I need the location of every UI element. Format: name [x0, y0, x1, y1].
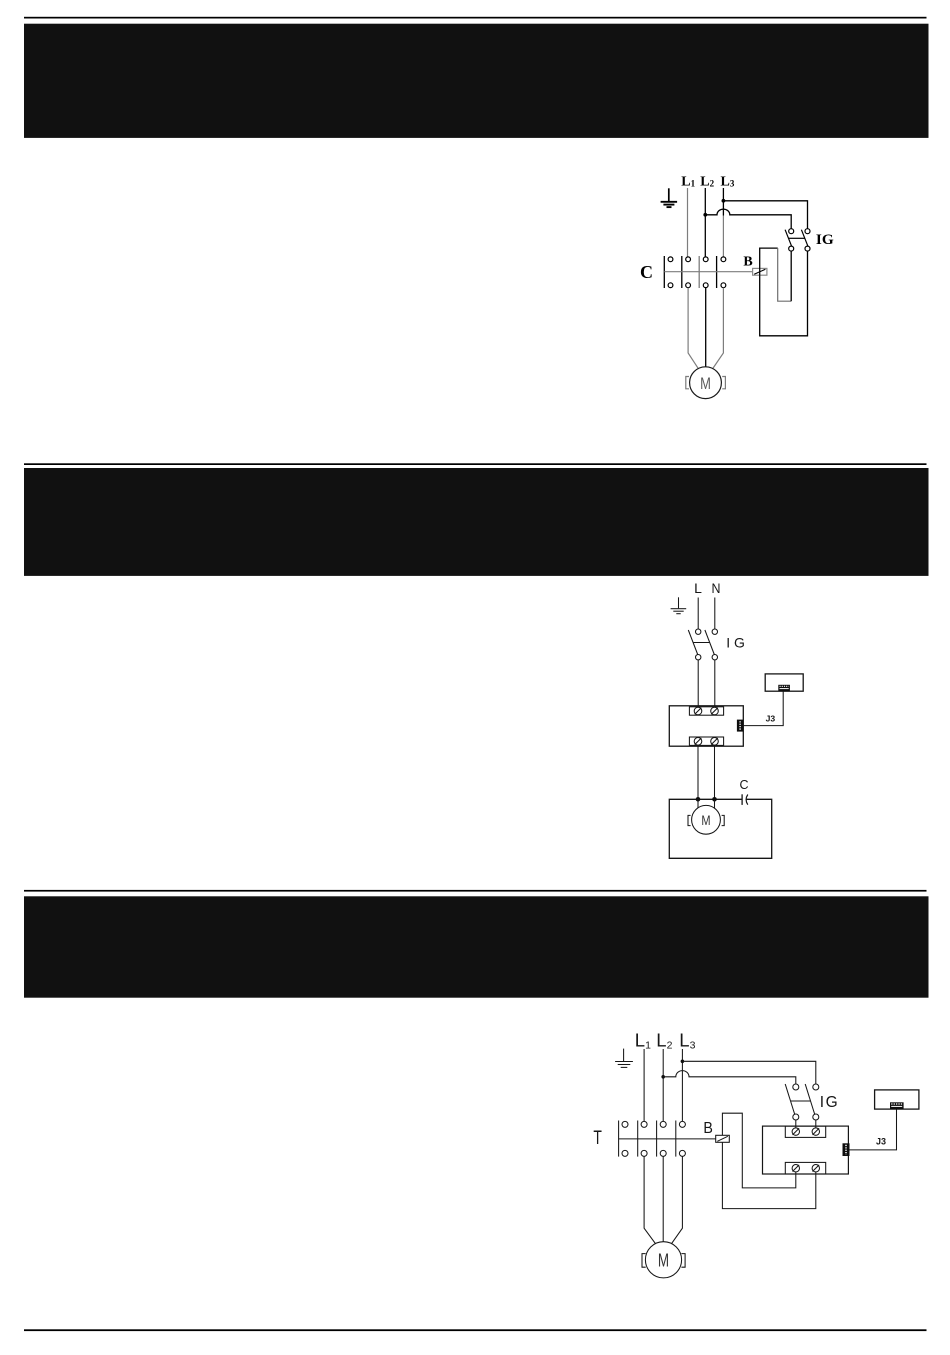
switch IG blades: [785, 1084, 815, 1115]
svg-text:B: B: [743, 254, 752, 269]
svg-text:IG: IG: [726, 635, 748, 651]
wire relay bottom to box bottom-right terminal: [722, 1142, 815, 1208]
contactor T top contacts: [622, 1121, 685, 1127]
wire dot to motor right: [714, 799, 716, 808]
wire N: [714, 598, 716, 630]
wire dot to motor left: [697, 799, 699, 808]
motor M circle: [690, 367, 722, 399]
display module box: [875, 1090, 919, 1109]
ground: [661, 188, 678, 207]
contactor T bottom contacts: [622, 1150, 685, 1156]
motor wire phase 2: [705, 288, 707, 367]
terminal strip bottom: [689, 737, 723, 745]
svg-text:L2: L2: [700, 174, 714, 189]
wire loop mid: [778, 248, 792, 301]
connector J3 on box edge: [843, 1143, 850, 1156]
display module connector: [890, 1102, 904, 1109]
relay B box: [753, 268, 767, 275]
wire L3 to IG right pole: [682, 1061, 815, 1084]
wire L2: [704, 188, 706, 257]
svg-text:J3: J3: [766, 713, 776, 723]
terminal screw top right: [711, 707, 719, 715]
junction dot L2: [703, 213, 707, 217]
wire L2 to IG left pole with hop: [663, 1071, 796, 1084]
capacitor C left plate: [741, 794, 743, 805]
switch IG contacts: [793, 1084, 819, 1120]
junction dot L3: [722, 199, 726, 203]
wire box to motor N: [714, 745, 716, 799]
motor left terminal tab: [642, 1254, 646, 1268]
svg-text:M: M: [658, 1249, 669, 1270]
wire L3: [722, 188, 724, 216]
svg-text:T: T: [593, 1128, 602, 1149]
wire relay bottom loop: [760, 251, 808, 336]
contactor linkage to relay: [619, 1138, 716, 1140]
wire L3 to IG right pole: [723, 201, 807, 229]
ground: [615, 1049, 633, 1068]
svg-text:B: B: [703, 1120, 713, 1137]
motor right terminal tab: [681, 1254, 685, 1268]
redaction band 3: [24, 896, 929, 997]
motor right terminal tab: [722, 815, 725, 825]
display module box: [765, 674, 803, 691]
svg-text:L1: L1: [681, 174, 695, 189]
svg-text:IG: IG: [820, 1094, 839, 1111]
display module connector: [778, 685, 790, 691]
terminal screw bottom right: [711, 738, 719, 746]
relay B box: [716, 1135, 730, 1142]
wire L3 lower: [722, 216, 724, 257]
contactor C top contacts: [668, 257, 726, 262]
wire L1: [687, 188, 689, 257]
wire relay top loop: [760, 248, 778, 275]
wire IG to box N: [714, 660, 716, 707]
svg-text:N: N: [712, 580, 721, 596]
motor enclosure box: [669, 799, 771, 858]
svg-text:L3: L3: [721, 174, 735, 189]
terminal screw top left: [792, 1128, 799, 1135]
terminal screw top right: [812, 1128, 819, 1135]
motor wire phase 3: [671, 1156, 682, 1243]
motor wire phase 3: [713, 288, 724, 369]
wire IG left to control box: [795, 1120, 797, 1128]
terminal strip top: [785, 1126, 825, 1137]
switch IG contacts: [696, 629, 718, 660]
motor left terminal tab: [686, 377, 689, 389]
wire IG right to control box: [815, 1120, 817, 1128]
rule 3: [24, 890, 927, 892]
top rule: [24, 17, 927, 19]
svg-text:IG: IG: [816, 232, 834, 248]
motor wire phase 1: [688, 288, 698, 369]
ground: [671, 597, 687, 613]
terminal screw bottom left: [792, 1165, 799, 1172]
motor right terminal tab: [722, 377, 725, 389]
junction dot L2: [661, 1075, 665, 1079]
redaction band 2: [24, 468, 929, 576]
wire L: [697, 598, 699, 630]
switch IG blades: [688, 630, 714, 655]
wire J3 to display module: [850, 1109, 897, 1150]
control box: [763, 1126, 849, 1174]
wire IG to box L: [697, 660, 699, 707]
svg-text:L3: L3: [679, 1030, 695, 1052]
terminal screw bottom right: [812, 1165, 819, 1172]
connector J3 on box edge: [737, 720, 743, 732]
contactor C bottom contacts: [668, 283, 726, 288]
motor left terminal tab: [688, 815, 691, 825]
svg-text:L: L: [694, 580, 702, 596]
wire L3: [681, 1049, 683, 1121]
contactor linkage to relay: [664, 271, 752, 273]
bottom rule: [24, 1329, 927, 1331]
redaction band 1: [24, 24, 929, 138]
terminal screw top left: [694, 707, 702, 715]
svg-text:L2: L2: [656, 1030, 672, 1052]
motor M circle: [692, 805, 721, 834]
svg-text:C: C: [640, 262, 653, 282]
junction dot L3: [681, 1060, 685, 1064]
wire J3 to display module: [743, 691, 783, 725]
switch IG blades: [785, 230, 808, 247]
wire L1: [643, 1049, 645, 1121]
terminal strip top: [689, 707, 723, 715]
motor M circle: [645, 1242, 681, 1278]
rule 2: [24, 463, 927, 465]
control box: [669, 706, 743, 746]
wire L2 to IG left pole with hop: [705, 209, 791, 229]
svg-text:L1: L1: [635, 1030, 651, 1052]
terminal strip bottom: [785, 1162, 825, 1174]
switch IG pole contacts: [789, 229, 810, 251]
junction dot left: [696, 797, 701, 802]
capacitor C right plate: [746, 795, 748, 805]
svg-text:M: M: [700, 374, 711, 393]
motor wire phase 2: [662, 1156, 664, 1241]
wire relay top to box bottom-left terminal: [722, 1113, 795, 1188]
contactor T bars: [619, 1121, 676, 1157]
wire L2: [662, 1049, 664, 1121]
terminal screw bottom left: [694, 738, 702, 746]
junction dot right: [712, 797, 717, 802]
svg-text:J3: J3: [876, 1137, 886, 1147]
contactor C bars: [664, 256, 716, 288]
svg-text:C: C: [739, 778, 748, 792]
motor wire phase 1: [644, 1156, 656, 1243]
svg-text:M: M: [701, 812, 710, 828]
wire box to motor L: [697, 745, 699, 799]
